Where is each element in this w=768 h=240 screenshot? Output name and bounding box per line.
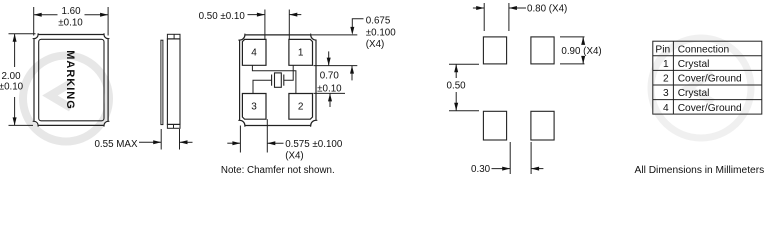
- svg-text:±0.100: ±0.100: [366, 27, 396, 38]
- land pattern pad top-right: [531, 37, 554, 64]
- pad 2: [289, 94, 313, 120]
- svg-text:±0.10: ±0.10: [0, 82, 24, 93]
- bottom view outline with corner notches: [240, 35, 316, 126]
- land dim 0.50 ext lines: [449, 63, 479, 65]
- 0.675 arrows: [350, 27, 354, 35]
- svg-text:0.90 (X4): 0.90 (X4): [561, 46, 601, 57]
- svg-text:0.50 ±0.10: 0.50 ±0.10: [199, 11, 246, 22]
- svg-text:0.50: 0.50: [447, 81, 467, 92]
- svg-text:MARKING: MARKING: [64, 50, 76, 110]
- side view top pad tab: [167, 34, 180, 39]
- top view outer outline: [34, 35, 108, 126]
- top view inner lid outline: [39, 39, 104, 121]
- arrowheads: [13, 6, 586, 171]
- dim 0.55 ext lines: [160, 129, 162, 150]
- svg-text:4: 4: [251, 48, 257, 59]
- svg-text:0.30: 0.30: [471, 164, 491, 175]
- dim 0.675 package top edge extension: [311, 34, 357, 36]
- dim 0.50 arrow tails: [248, 14, 265, 16]
- svg-text:4: 4: [663, 103, 669, 114]
- svg-text:2: 2: [298, 102, 304, 113]
- svg-text:Cover/Ground: Cover/Ground: [678, 103, 742, 114]
- crystal symbol body: [275, 73, 282, 87]
- 0.55 arrows: [153, 140, 161, 144]
- svg-text:(X4): (X4): [285, 150, 304, 161]
- land dim 0.80 ext lines: [483, 3, 485, 31]
- 0.30 arrows: [502, 167, 510, 171]
- bottom view corner tick marks: [238, 34, 317, 127]
- svg-text:Pin: Pin: [655, 44, 670, 55]
- pad 1: [289, 39, 313, 65]
- svg-text:(X4): (X4): [366, 39, 385, 50]
- land pattern pad bottom-left: [483, 111, 506, 140]
- pad 4: [242, 39, 266, 65]
- dim 0.675 leader: [352, 19, 363, 27]
- 2.00 up/down arrows: [13, 34, 17, 42]
- land dim 0.30 ext lines: [509, 142, 511, 174]
- svg-text:0.575 ±0.100: 0.575 ±0.100: [285, 139, 343, 150]
- dim 1.60 ext lines: [33, 7, 35, 36]
- watermark right logo: [651, 38, 751, 138]
- land pattern pad bottom-right: [531, 111, 554, 140]
- dim 0.50 pads gap ext lines: [264, 10, 266, 40]
- dim 0.575 ext lines: [239, 126, 241, 153]
- top view corner tick marks: [33, 33, 110, 127]
- land dim 0.30 arrow tails: [492, 168, 511, 170]
- svg-text:±0.10: ±0.10: [317, 84, 342, 95]
- 1.60 left/right arrows: [34, 13, 42, 17]
- svg-text:1.60: 1.60: [61, 6, 81, 17]
- svg-text:±0.10: ±0.10: [58, 17, 83, 28]
- dim 2.00 lines: [14, 34, 16, 67]
- 0.575 arrows: [232, 141, 240, 145]
- svg-text:Crystal: Crystal: [678, 88, 710, 99]
- svg-text:0.70: 0.70: [320, 71, 340, 82]
- svg-text:3: 3: [251, 102, 257, 113]
- dim 0.55 arrow tails: [139, 141, 161, 143]
- pad 3: [242, 94, 266, 120]
- watermark left logo: [23, 56, 109, 142]
- 0.50 gap arrows: [257, 13, 265, 17]
- land 0.50 arrows: [454, 64, 458, 72]
- table text: [655, 44, 742, 113]
- svg-text:All Dimensions in Millimeters: All Dimensions in Millimeters: [635, 165, 765, 176]
- dim 0.70 arrow stems: [328, 51, 330, 65]
- svg-text:2: 2: [663, 74, 669, 85]
- 0.70 arrows: [327, 58, 331, 66]
- pad numbers: [251, 48, 304, 113]
- wire crystal left plate to pad3: [253, 80, 272, 93]
- dim 2.00 ext lines: [9, 33, 36, 35]
- svg-text:2.00: 2.00: [1, 71, 21, 82]
- 0.90 arrows: [581, 37, 585, 45]
- dim 1.60 lines: [34, 14, 58, 16]
- svg-text:Connection: Connection: [678, 44, 730, 55]
- svg-text:1: 1: [298, 48, 304, 59]
- land dim 0.80 arrow tails: [473, 7, 484, 9]
- side view body: [167, 39, 180, 125]
- wire pad4 to pad2 (cover/ground): [252, 65, 296, 93]
- pin table: [653, 41, 762, 114]
- svg-text:3: 3: [663, 88, 669, 99]
- svg-text:1: 1: [663, 59, 669, 70]
- dimension linework: [9, 3, 585, 174]
- dim 0.575 arrow tails: [227, 142, 240, 144]
- svg-text:Crystal: Crystal: [678, 59, 710, 70]
- crystal symbol plates: [271, 75, 273, 86]
- svg-text:0.675: 0.675: [366, 16, 391, 27]
- svg-text:Cover/Ground: Cover/Ground: [678, 74, 742, 85]
- side view bottom pad tab: [167, 124, 180, 128]
- 0.80 arrows: [476, 6, 484, 10]
- svg-text:Note: Chamfer not shown.: Note: Chamfer not shown.: [221, 165, 335, 176]
- land dim 0.90 ext lines: [560, 36, 585, 38]
- land dim 0.50 stems: [455, 64, 457, 78]
- land dim 0.90 stems: [582, 37, 584, 44]
- land pattern pad top-left: [483, 37, 506, 64]
- svg-text:0.80 (X4): 0.80 (X4): [527, 3, 567, 14]
- side view lid strip: [161, 40, 163, 124]
- wire pad1 to crystal right plate: [284, 65, 293, 80]
- dim 0.70 ext lines: [314, 65, 358, 67]
- svg-text:0.55 MAX: 0.55 MAX: [94, 139, 137, 150]
